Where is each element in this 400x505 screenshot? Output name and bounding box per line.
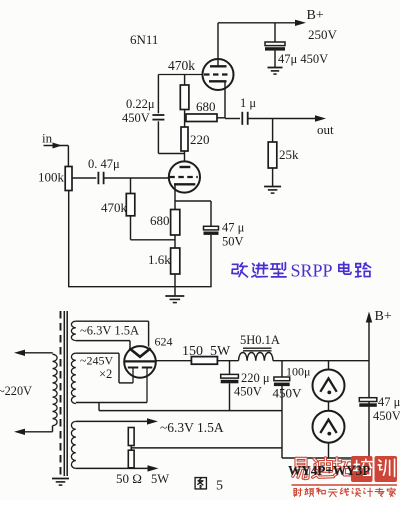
svg-text:100μ: 100μ	[286, 365, 310, 379]
svg-text:25k: 25k	[279, 147, 299, 162]
svg-text:450V: 450V	[234, 385, 262, 399]
svg-text:470k: 470k	[168, 58, 195, 73]
svg-text:~245V: ~245V	[80, 354, 113, 368]
svg-text:47 μ: 47 μ	[378, 395, 400, 409]
svg-text:0. 47μ: 0. 47μ	[88, 157, 120, 171]
svg-text:450V: 450V	[273, 386, 303, 401]
svg-text:0.22μ: 0.22μ	[126, 97, 155, 111]
svg-text:~6.3V 1.5A: ~6.3V 1.5A	[80, 324, 139, 338]
svg-text:47 μ: 47 μ	[222, 221, 245, 235]
svg-text:5H0.1A: 5H0.1A	[240, 333, 280, 347]
svg-text:WY4P+WY3P: WY4P+WY3P	[288, 463, 370, 478]
svg-text:~6.3V 1.5A: ~6.3V 1.5A	[160, 420, 224, 435]
svg-text:SRPP: SRPP	[291, 261, 333, 281]
svg-text:220: 220	[190, 132, 210, 147]
svg-text:×2: ×2	[99, 367, 112, 381]
svg-text:in: in	[42, 131, 53, 146]
svg-text:6N11: 6N11	[130, 32, 158, 47]
svg-text:50 Ω: 50 Ω	[116, 471, 142, 486]
svg-text:1.6k: 1.6k	[148, 252, 171, 267]
svg-text:250V: 250V	[308, 27, 338, 42]
svg-text:624: 624	[155, 335, 173, 349]
svg-text:680: 680	[196, 99, 216, 114]
svg-text:470k: 470k	[101, 200, 128, 215]
svg-text:100k: 100k	[38, 170, 65, 185]
svg-text:5: 5	[216, 479, 223, 494]
svg-text:220 μ: 220 μ	[241, 371, 270, 385]
svg-text:1 μ: 1 μ	[240, 96, 256, 110]
svg-text:47μ 450V: 47μ 450V	[278, 52, 328, 66]
svg-text:out: out	[317, 122, 334, 137]
svg-text:B+: B+	[307, 8, 324, 23]
svg-text:450V: 450V	[122, 111, 150, 125]
svg-text:B+: B+	[375, 309, 392, 324]
svg-text:450V: 450V	[373, 409, 400, 423]
svg-text:~220V: ~220V	[0, 384, 32, 398]
svg-text:680: 680	[150, 213, 170, 228]
svg-text:5W: 5W	[151, 472, 169, 486]
svg-text:50V: 50V	[222, 235, 244, 249]
